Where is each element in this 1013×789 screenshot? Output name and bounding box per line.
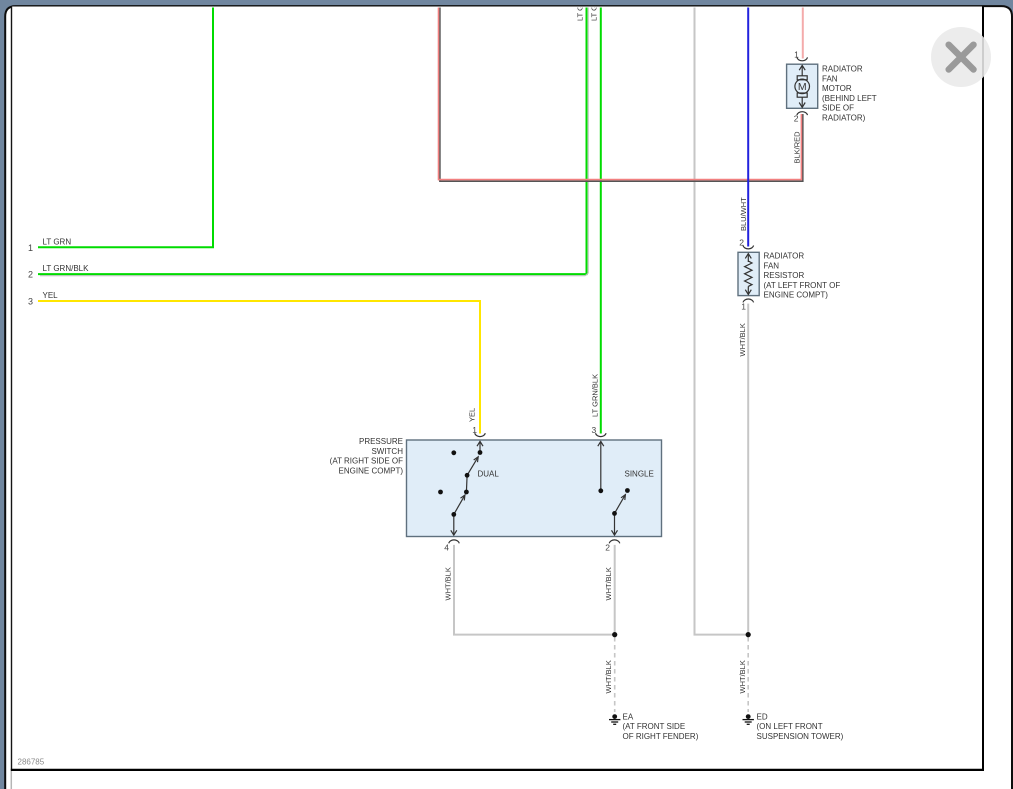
- pressure switch S1 box: [407, 440, 662, 537]
- junction node at ED drop: [746, 632, 751, 637]
- switch pin 1 connector: [475, 433, 486, 436]
- wire WHT/BLK from switch pin 2 down to junction: [614, 545, 616, 635]
- svg-text:EA: EA: [623, 713, 634, 722]
- svg-text:RADIATOR: RADIATOR: [764, 252, 805, 261]
- svg-text:OF RIGHT FENDER): OF RIGHT FENDER): [623, 732, 699, 741]
- pressure switch annotation: [330, 437, 404, 475]
- dashed WHT/BLK to ground EA: [614, 637, 616, 712]
- svg-text:YEL: YEL: [43, 291, 59, 300]
- svg-text:3: 3: [28, 297, 33, 307]
- svg-text:WHT/BLK: WHT/BLK: [738, 660, 747, 693]
- svg-text:(ON LEFT FRONT: (ON LEFT FRONT: [757, 722, 823, 731]
- wire 2 LT GRN/BLK horizontal and vertical (green with dark tracer): [38, 6, 588, 276]
- svg-text:286785: 286785: [18, 758, 45, 767]
- svg-text:(AT RIGHT SIDE OF: (AT RIGHT SIDE OF: [330, 457, 403, 466]
- svg-text:WHT/BLK: WHT/BLK: [738, 323, 747, 356]
- svg-text:DUAL: DUAL: [478, 470, 500, 479]
- ground EA symbol: [609, 714, 620, 724]
- wire WHT/BLK from switch pin 4 down to junction: [454, 545, 615, 635]
- ground EA label: [623, 713, 699, 741]
- svg-text:BLK/RED: BLK/RED: [793, 131, 802, 164]
- wire WHT/BLK from resistor pin 1 down to junction: [747, 304, 749, 635]
- svg-text:WHT/BLK: WHT/BLK: [604, 567, 613, 600]
- svg-text:1: 1: [472, 425, 477, 435]
- svg-text:2: 2: [794, 113, 799, 123]
- svg-text:ED: ED: [757, 713, 768, 722]
- SINGLE switch contacts: [598, 441, 626, 535]
- svg-text:2: 2: [739, 238, 744, 248]
- DUAL switch nodes: [438, 450, 482, 517]
- close button: [931, 27, 991, 87]
- svg-text:1: 1: [741, 302, 746, 312]
- ground ED label: [757, 713, 844, 741]
- junction node at EA drop: [612, 632, 617, 637]
- svg-text:SIDE OF: SIDE OF: [822, 104, 854, 113]
- svg-text:RESISTOR: RESISTOR: [764, 271, 805, 280]
- svg-text:PRESSURE: PRESSURE: [359, 437, 403, 446]
- wire 3 YEL horizontal and vertical down to pressure switch pin 1: [38, 301, 480, 434]
- wire PNK/RED to motor pin 1: [802, 6, 804, 59]
- resistor pin 2 connector: [743, 246, 754, 249]
- resistor annotation: [764, 252, 841, 300]
- svg-text:1: 1: [794, 50, 799, 60]
- svg-text:LT GRN/BLK: LT GRN/BLK: [591, 374, 600, 417]
- radiator fan resistor R1 box: [738, 252, 759, 295]
- svg-text:1: 1: [28, 243, 33, 253]
- svg-text:YEL: YEL: [468, 408, 477, 422]
- svg-text:RADIATOR: RADIATOR: [822, 65, 863, 74]
- svg-text:3: 3: [591, 425, 596, 435]
- svg-text:WHT/BLK: WHT/BLK: [444, 567, 453, 600]
- svg-text:M: M: [798, 81, 807, 93]
- svg-text:4: 4: [444, 543, 449, 553]
- svg-text:(AT LEFT FRONT OF: (AT LEFT FRONT OF: [764, 281, 841, 290]
- svg-text:2: 2: [28, 270, 33, 280]
- wire BLU/WHT to resistor pin 2: [747, 6, 749, 247]
- svg-text:SUSPENSION TOWER): SUSPENSION TOWER): [757, 732, 844, 741]
- switch pin 3 connector: [596, 433, 607, 436]
- svg-text:MOTOR: MOTOR: [822, 84, 852, 93]
- wire 1 LT GRN horizontal and vertical: [38, 6, 213, 247]
- switch pin 4 connector: [449, 540, 460, 543]
- wire LT GRN/BLK vertical to pressure switch pin 3: [600, 6, 602, 434]
- ground ED symbol: [743, 714, 754, 724]
- motor annotation: [822, 65, 877, 123]
- page edge line below frame bottom-left: [10, 771, 12, 789]
- svg-text:FAN: FAN: [764, 261, 780, 270]
- svg-text:BLU/WHT: BLU/WHT: [739, 197, 748, 231]
- svg-text:SINGLE: SINGLE: [625, 470, 654, 479]
- motor pin 2 connector: [797, 112, 808, 115]
- svg-text:RADIATOR): RADIATOR): [822, 114, 866, 123]
- svg-text:SWITCH: SWITCH: [371, 447, 403, 456]
- wire BLK/RED from motor pin 2 down and left and up to top (black+red pair): [439, 6, 803, 181]
- svg-text:FAN: FAN: [822, 74, 838, 83]
- svg-text:(BEHIND LEFT: (BEHIND LEFT: [822, 94, 877, 103]
- resistor pin 1 connector: [743, 299, 754, 302]
- motor pin 1 connector: [797, 57, 808, 60]
- frame bottom edge: [11, 769, 984, 771]
- frame left edge: [11, 7, 13, 771]
- dashed WHT/BLK to ground ED: [747, 637, 749, 712]
- svg-text:ENGINE COMPT): ENGINE COMPT): [339, 466, 404, 475]
- svg-text:ENGINE COMPT): ENGINE COMPT): [764, 291, 829, 300]
- wire WHT/BLK long gray vertical from top to junction near ED: [695, 6, 749, 635]
- SINGLE switch nodes: [598, 488, 629, 516]
- DUAL switch contacts: [451, 441, 483, 535]
- svg-text:(AT FRONT SIDE: (AT FRONT SIDE: [623, 722, 686, 731]
- radiator fan motor M1 box: [787, 64, 818, 108]
- svg-text:LT GRN/BLK: LT GRN/BLK: [43, 264, 90, 273]
- svg-text:WHT/BLK: WHT/BLK: [604, 660, 613, 693]
- svg-text:LT GRN: LT GRN: [43, 237, 72, 246]
- svg-text:2: 2: [605, 543, 610, 553]
- switch pin 2 connector: [609, 540, 620, 543]
- frame right edge: [982, 7, 984, 771]
